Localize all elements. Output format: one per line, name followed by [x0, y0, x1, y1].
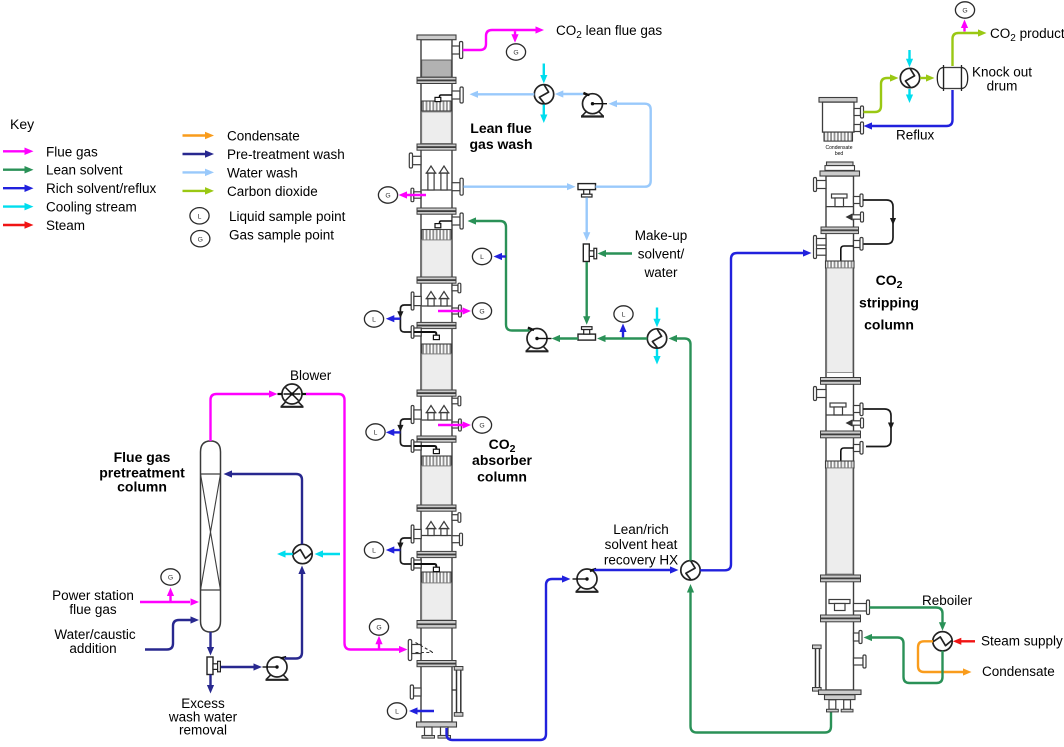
liquid sample line wash return	[497, 255, 506, 257]
gas sample point at lean flue gas	[514, 31, 516, 36]
pretreatment column packing X	[201, 474, 221, 590]
reflux line drum to condensate bed	[870, 90, 953, 126]
wire tee to pretreatment pump	[221, 666, 256, 668]
stripper feed nozzle double	[814, 236, 817, 259]
absorber top plate	[417, 35, 456, 40]
absorber stage1 left nozzle	[413, 156, 422, 164]
stripper flange pair y227	[821, 227, 859, 230]
solvent wash pump P3	[527, 346, 548, 350]
wash draw line absorber to tee	[464, 185, 569, 187]
stripper hatch1	[826, 261, 855, 268]
stripper support legs	[829, 700, 836, 710]
svg-text:gas wash: gas wash	[469, 136, 532, 152]
carbon dioxide product line	[953, 33, 979, 66]
lean rich heat recovery HX4	[681, 561, 700, 580]
absorber stage4 upper left nozzle	[411, 525, 414, 543]
absorber wash internal distributor	[440, 95, 453, 97]
liquid sample line stage2	[392, 318, 400, 320]
stripper top left nozzle	[817, 181, 827, 189]
absorber stage1 G nozzle left	[411, 188, 414, 202]
absorber packing wash section	[422, 112, 452, 144]
svg-text:Steam: Steam	[46, 218, 85, 233]
stripper bottom flanges	[819, 690, 862, 695]
lean solvent line stripper to reboiler	[870, 608, 943, 624]
svg-text:Liquid sample point: Liquid sample point	[229, 209, 346, 224]
sump liquid sample line	[416, 710, 435, 712]
stripper left nozzle2	[817, 390, 827, 398]
svg-text:Lean/rich: Lean/rich	[613, 522, 669, 537]
absorber flange pair y277	[417, 277, 456, 280]
svg-text:stripping: stripping	[859, 295, 919, 311]
svg-text:flue gas: flue gas	[69, 602, 117, 617]
stripper vapor nozzle1	[854, 197, 861, 204]
stripper vapor loop2 wire	[863, 409, 891, 447]
absorber stage2 internal distributor pipe	[414, 332, 436, 335]
pump P3 discharge tick	[528, 327, 534, 330]
pump P5 discharge tick	[590, 569, 596, 572]
svg-text:Water wash: Water wash	[227, 165, 298, 180]
stripper tray y415	[826, 414, 854, 416]
cooling stream into product cooler	[908, 50, 910, 60]
absorber flange pair y551	[417, 551, 456, 554]
liquid sample point at solvent line	[614, 306, 633, 322]
legend arrow Lean solvent	[3, 168, 25, 170]
legend arrow Rich solvent/reflux	[3, 187, 25, 189]
absorber return internal distributor	[440, 221, 453, 224]
wash blowdown line tee to makeup tee	[586, 197, 588, 233]
absorber stage3 upper left nozzle	[411, 406, 414, 424]
absorber green return nozzle	[452, 217, 460, 225]
rich solvent line HX to stripper	[700, 253, 803, 570]
CO2 absorber column body	[421, 40, 452, 723]
absorber stage top nozzle y517	[452, 515, 458, 521]
absorber stage2 lower left nozzle	[411, 326, 414, 339]
knock out drum vessel	[944, 68, 962, 89]
absorber wash draw nozzle	[452, 183, 460, 191]
stripper tray y206	[826, 206, 854, 208]
stripper reboiler draw nozzle	[854, 604, 867, 612]
cooling stream out of pretreatment cooler	[284, 553, 293, 555]
wash pump discharge tick	[584, 93, 590, 96]
svg-text:Power station: Power station	[52, 588, 134, 603]
svg-text:Water/caustic: Water/caustic	[54, 627, 136, 642]
absorber tray stage2	[422, 305, 452, 307]
svg-text:Condensate: Condensate	[227, 129, 300, 144]
absorber packing stage2	[422, 354, 452, 390]
absorber G sample nozzle y311	[452, 308, 459, 314]
rich solvent line absorber bottoms to pump	[447, 579, 566, 740]
stripper internal pipe1	[841, 246, 854, 261]
stripper packing1	[827, 268, 853, 373]
absorber packing stage1	[422, 240, 452, 277]
svg-text:L: L	[622, 312, 626, 319]
absorber tray stage1	[422, 189, 452, 191]
svg-text:absorber: absorber	[472, 452, 532, 468]
carbon dioxide line cooler to drum	[920, 77, 928, 79]
condensate line from reboiler	[918, 641, 964, 672]
svg-text:solvent heat: solvent heat	[605, 537, 678, 552]
absorber stage4 lower left nozzle	[411, 558, 414, 571]
svg-text:L: L	[395, 709, 399, 716]
cooling stream into pretreatment cooler	[321, 553, 340, 555]
wash cooler HX1	[534, 85, 553, 104]
svg-text:Flue gas: Flue gas	[114, 449, 171, 465]
stripper spray nozzle1	[852, 215, 861, 219]
stripper flange pair y575	[821, 575, 861, 578]
stripper manway2	[830, 403, 846, 407]
svg-text:L: L	[374, 430, 378, 437]
wash line pump to cooler	[561, 93, 583, 95]
stripper top flange	[820, 171, 860, 176]
lean solvent line to absorber wash return	[475, 221, 530, 331]
legend arrow Pre-treatment wash	[183, 153, 206, 155]
absorber bubble caps stage3	[427, 406, 436, 413]
tee makeup solvent	[583, 244, 589, 262]
condensate bed vessel	[819, 98, 857, 103]
absorber hatch stage1	[422, 230, 452, 241]
svg-text:Lean flue: Lean flue	[470, 120, 532, 136]
absorber flange pair y78	[417, 77, 456, 80]
legend arrow Carbon dioxide	[183, 190, 206, 192]
legend arrow Condensate	[183, 134, 206, 136]
absorber packing stage4	[422, 583, 452, 620]
svg-text:G: G	[479, 423, 484, 430]
absorber flange pair y144	[417, 144, 456, 147]
pretreatment wash return to column top	[231, 474, 302, 544]
svg-text:L: L	[198, 214, 202, 221]
absorber demister section	[422, 60, 452, 77]
svg-text:L: L	[372, 317, 376, 324]
absorber support legs	[425, 727, 433, 736]
lean solvent line stripper bottoms to HX	[691, 592, 832, 733]
absorber stage3 external downcomer wire	[400, 419, 411, 446]
liquid sample point L stage3	[366, 424, 385, 440]
stripper manway3	[829, 600, 850, 604]
svg-text:Rich solvent/reflux: Rich solvent/reflux	[46, 181, 157, 196]
stripper spray nozzle2	[852, 421, 861, 425]
absorber wash water inlet nozzle	[452, 91, 460, 99]
tee pretreatment bottoms	[207, 657, 213, 675]
absorber level gauge	[456, 670, 458, 713]
absorber flange pair y390	[417, 390, 456, 393]
cooling stream out of wash cooler	[543, 105, 545, 116]
legend arrow Cooling stream	[3, 205, 25, 207]
stripper capped nozzle	[854, 658, 864, 665]
svg-text:L: L	[372, 548, 376, 555]
solvent line tee to pump	[558, 337, 578, 339]
absorber hatch stage2	[422, 344, 452, 354]
gas sample point at absorber inlet	[378, 640, 380, 650]
svg-text:Lean solvent: Lean solvent	[46, 163, 123, 178]
stripper top manway	[832, 194, 848, 198]
stripper hatch2	[826, 461, 855, 468]
solvent trim cooler HX3	[647, 329, 666, 348]
stripper reboiler return nozzle	[854, 633, 860, 641]
svg-text:G: G	[376, 625, 381, 632]
svg-text:bed: bed	[835, 151, 844, 157]
power station flue gas line	[140, 601, 190, 603]
stripper vapor loop1 wire	[863, 200, 893, 244]
svg-text:Reflux: Reflux	[896, 128, 935, 143]
absorber tray stage3	[422, 419, 452, 421]
liquid sample point L stage4	[364, 542, 383, 558]
absorber stage top nozzle y401	[452, 398, 458, 404]
wash line tee up to pump suction	[596, 104, 651, 187]
absorber G sample nozzle y425	[452, 422, 459, 428]
wash line cooler to absorber	[477, 93, 534, 95]
liquid sample point wash return	[472, 248, 491, 264]
svg-text:column: column	[477, 469, 527, 485]
legend arrow Water wash	[183, 171, 206, 173]
liquid sample line stage4	[392, 549, 400, 551]
stripper flange pair y615	[821, 615, 861, 618]
makeup line down to solvent tee	[586, 262, 588, 318]
stripper top stack	[827, 162, 854, 166]
svg-text:Cooling stream: Cooling stream	[46, 200, 137, 215]
absorber stage top nozzle y288	[452, 285, 458, 291]
excess wash water line	[209, 675, 211, 687]
svg-text:column: column	[117, 479, 167, 495]
blower B1	[282, 402, 303, 406]
svg-text:addition: addition	[69, 641, 116, 656]
absorber flange pair y505	[417, 505, 456, 508]
svg-text:L: L	[480, 254, 484, 261]
stripper level gauge	[815, 648, 817, 688]
lean solvent return reboiler to stripper	[871, 638, 943, 684]
svg-text:Condensate: Condensate	[982, 664, 1055, 679]
absorber tray stage4	[422, 535, 452, 537]
rich solvent pump P5	[577, 587, 598, 591]
absorber thick flange y620	[417, 621, 456, 624]
pretreatment cooler HX5	[293, 544, 312, 563]
water caustic addition line	[145, 620, 191, 650]
absorber stage3 internal distributor pipe	[414, 446, 436, 449]
legend arrow Flue gas	[3, 150, 25, 152]
svg-text:G: G	[385, 193, 390, 200]
steam supply line	[959, 640, 975, 642]
absorber flange pair y436	[417, 436, 456, 439]
absorber flange pair y208	[417, 208, 456, 211]
carbon dioxide line bed to cooler	[864, 78, 893, 112]
flue gas pretreatment column vessel	[201, 441, 221, 632]
legend gas sample point	[191, 231, 210, 247]
gas sample point stage2	[438, 310, 463, 312]
svg-text:Knock out: Knock out	[972, 65, 1032, 80]
stripper internal pipe2	[841, 448, 854, 461]
wash pump P2	[582, 112, 603, 116]
gas sample point at power station line	[169, 594, 171, 602]
CO2 stripping column body	[826, 176, 854, 690]
legend arrow Steam	[3, 224, 25, 226]
svg-text:removal: removal	[179, 723, 227, 738]
absorber flange pair y322	[417, 322, 456, 325]
stripper flange pair y431	[821, 431, 861, 434]
gas sample point product	[963, 26, 965, 32]
absorber top gas outlet nozzle	[452, 46, 460, 54]
tee solvent line	[578, 334, 596, 340]
legend liquid sample point	[190, 208, 209, 224]
lean solvent line HX up to trim cooler	[675, 339, 691, 561]
svg-text:G: G	[962, 8, 967, 15]
pretreatment pump P4	[267, 675, 288, 679]
svg-text:Steam supply: Steam supply	[981, 634, 1063, 649]
absorber stage4 capped nozzle	[452, 536, 460, 543]
svg-text:water: water	[643, 265, 678, 280]
svg-text:Blower: Blower	[290, 368, 332, 383]
cooling stream into wash cooler	[543, 64, 545, 77]
svg-text:recovery HX: recovery HX	[604, 553, 678, 568]
pretreatment pump discharge to cooler	[285, 573, 303, 659]
absorber stage4 internal distributor pipe	[414, 564, 436, 567]
pretreatment bottoms line	[209, 632, 211, 648]
svg-text:Carbon dioxide: Carbon dioxide	[227, 184, 318, 199]
condensate bed reflux nozzle	[854, 125, 861, 132]
sump liquid sample point	[387, 703, 406, 719]
gas sample point stage1	[405, 194, 426, 196]
svg-text:Gas sample point: Gas sample point	[229, 228, 334, 243]
liquid sample line at solvent line	[622, 330, 624, 338]
svg-text:G: G	[479, 309, 484, 316]
flue gas line column top to blower	[211, 394, 271, 441]
makeup solvent feed line	[604, 252, 632, 254]
absorber stage2 upper left nozzle	[411, 292, 414, 310]
svg-text:solvent/: solvent/	[638, 247, 685, 262]
reboiler HX	[933, 632, 952, 651]
tee wash draw	[578, 184, 596, 190]
stripper packing2	[827, 468, 853, 574]
absorber bottom plate	[417, 722, 457, 727]
absorber hatch stage3	[422, 456, 452, 466]
liquid sample point L stage2	[364, 311, 383, 327]
absorber flue gas inlet nozzle	[408, 640, 411, 661]
absorber bubble caps stage4	[427, 522, 436, 529]
stripper return nozzle1	[854, 241, 861, 248]
flue gas line blower to absorber inlet	[306, 394, 399, 650]
svg-text:Key: Key	[10, 116, 34, 132]
absorber hatch stage4	[422, 572, 452, 583]
absorber bubble caps stage1	[427, 166, 436, 173]
absorber wash distributor hatch	[422, 101, 452, 111]
lean solvent line cooler to tee	[604, 337, 647, 339]
product cooler HX6	[900, 68, 919, 87]
svg-text:G: G	[513, 50, 518, 57]
svg-text:Pre-treatment wash: Pre-treatment wash	[227, 147, 345, 162]
stripper return nozzle2	[854, 445, 861, 452]
cooling stream into trim cooler	[656, 308, 658, 320]
cooling stream out of trim cooler	[656, 349, 658, 357]
stripper vapor nozzle2	[854, 406, 861, 413]
svg-text:G: G	[198, 236, 203, 243]
rich solvent line pump to HX	[594, 569, 671, 571]
stripper flange pair y377	[821, 378, 861, 381]
gas sample point stage3	[438, 424, 463, 426]
absorber packing stage3	[422, 466, 452, 505]
absorber bubble caps stage2	[427, 292, 436, 299]
svg-text:G: G	[168, 575, 173, 582]
absorber stage4 external downcomer wire	[400, 538, 411, 564]
lean flue gas outlet line	[463, 30, 536, 50]
cooling stream out of product cooler	[908, 89, 910, 96]
absorber flange pair y660	[417, 661, 456, 664]
svg-text:Flue gas: Flue gas	[46, 144, 98, 159]
condensate bed olive nozzle	[854, 109, 861, 116]
svg-text:Make-up: Make-up	[635, 228, 688, 243]
svg-text:column: column	[864, 317, 914, 333]
absorber inlet deflector dashed	[416, 643, 434, 653]
svg-text:Reboiler: Reboiler	[922, 593, 973, 608]
absorber sump left nozzle	[414, 688, 422, 696]
liquid sample line stage3	[392, 431, 400, 433]
svg-text:drum: drum	[987, 79, 1018, 94]
absorber stage2 external downcomer wire	[400, 305, 411, 332]
absorber stage3 lower left nozzle	[411, 440, 414, 453]
